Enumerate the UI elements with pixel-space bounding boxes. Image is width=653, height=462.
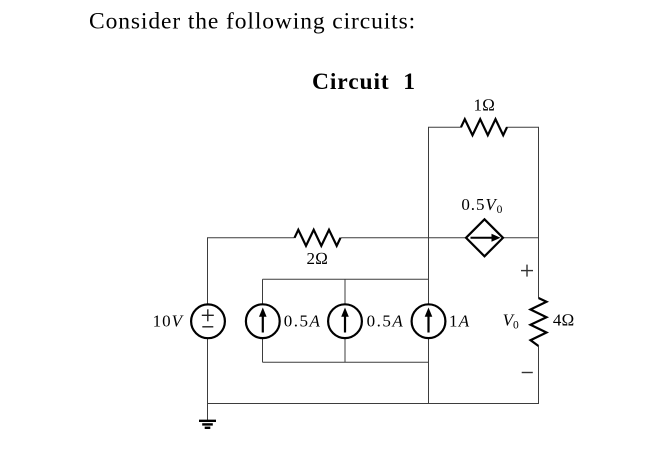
- wire main horizontal right segment: [503, 237, 539, 239]
- wire top loop left vertical: [428, 127, 430, 238]
- dependent source U1 0.5V0 (diamond): [466, 219, 503, 256]
- wire I2 top stub: [344, 279, 346, 305]
- wire left vertical upper (node A to 10V top): [207, 238, 209, 305]
- current source I1 0.5A: [246, 304, 280, 338]
- wire middle vertical upper (main to 1A source): [428, 238, 430, 305]
- resistor R2 2ohm (middle): [295, 230, 341, 246]
- current source I3 1A: [412, 304, 446, 338]
- wire right vertical lower (4ohm to bottom): [538, 346, 540, 404]
- svg-text:0.5A: 0.5A: [367, 311, 405, 330]
- svg-text:1Ω: 1Ω: [474, 96, 496, 115]
- wire middle vertical lower (1A source to bottom): [428, 338, 430, 404]
- voltage source V1 10V: [191, 304, 225, 338]
- wire top loop right vertical: [538, 127, 540, 238]
- svg-text:Circuit 1: Circuit 1: [312, 69, 416, 95]
- wire I1 top stub: [262, 279, 264, 305]
- wire main horizontal left segment: [207, 237, 295, 239]
- wire box top rail: [263, 278, 429, 280]
- resistor R3 4ohm (right, vertical): [531, 298, 547, 346]
- wire box bottom rail: [263, 361, 429, 363]
- resistor R1 1ohm (top): [461, 119, 507, 135]
- svg-text:4Ω: 4Ω: [553, 311, 575, 330]
- svg-text:1A: 1A: [449, 311, 470, 330]
- svg-text:Consider the following circuit: Consider the following circuits:: [89, 9, 416, 35]
- wire bottom rail: [207, 403, 539, 405]
- wire I2 bottom stub: [344, 338, 346, 362]
- wire right vertical upper (main to 4ohm): [538, 238, 540, 298]
- ground: [199, 421, 216, 428]
- wire top loop top-right segment: [507, 126, 540, 128]
- plus sign (V0 polarity): [521, 265, 533, 277]
- current source I2 0.5A: [328, 304, 362, 338]
- minus sign (V0 polarity): [522, 372, 533, 374]
- wire main horizontal middle segment: [341, 237, 467, 239]
- wire top loop top-left segment: [428, 126, 462, 128]
- svg-text:0.5A: 0.5A: [284, 311, 322, 330]
- wire I1 bottom stub: [262, 338, 264, 362]
- svg-text:2Ω: 2Ω: [307, 249, 329, 268]
- wire ground stub: [207, 404, 209, 421]
- wire left vertical lower (10V bottom to bottom rail): [207, 338, 209, 404]
- svg-text:10V: 10V: [153, 311, 185, 330]
